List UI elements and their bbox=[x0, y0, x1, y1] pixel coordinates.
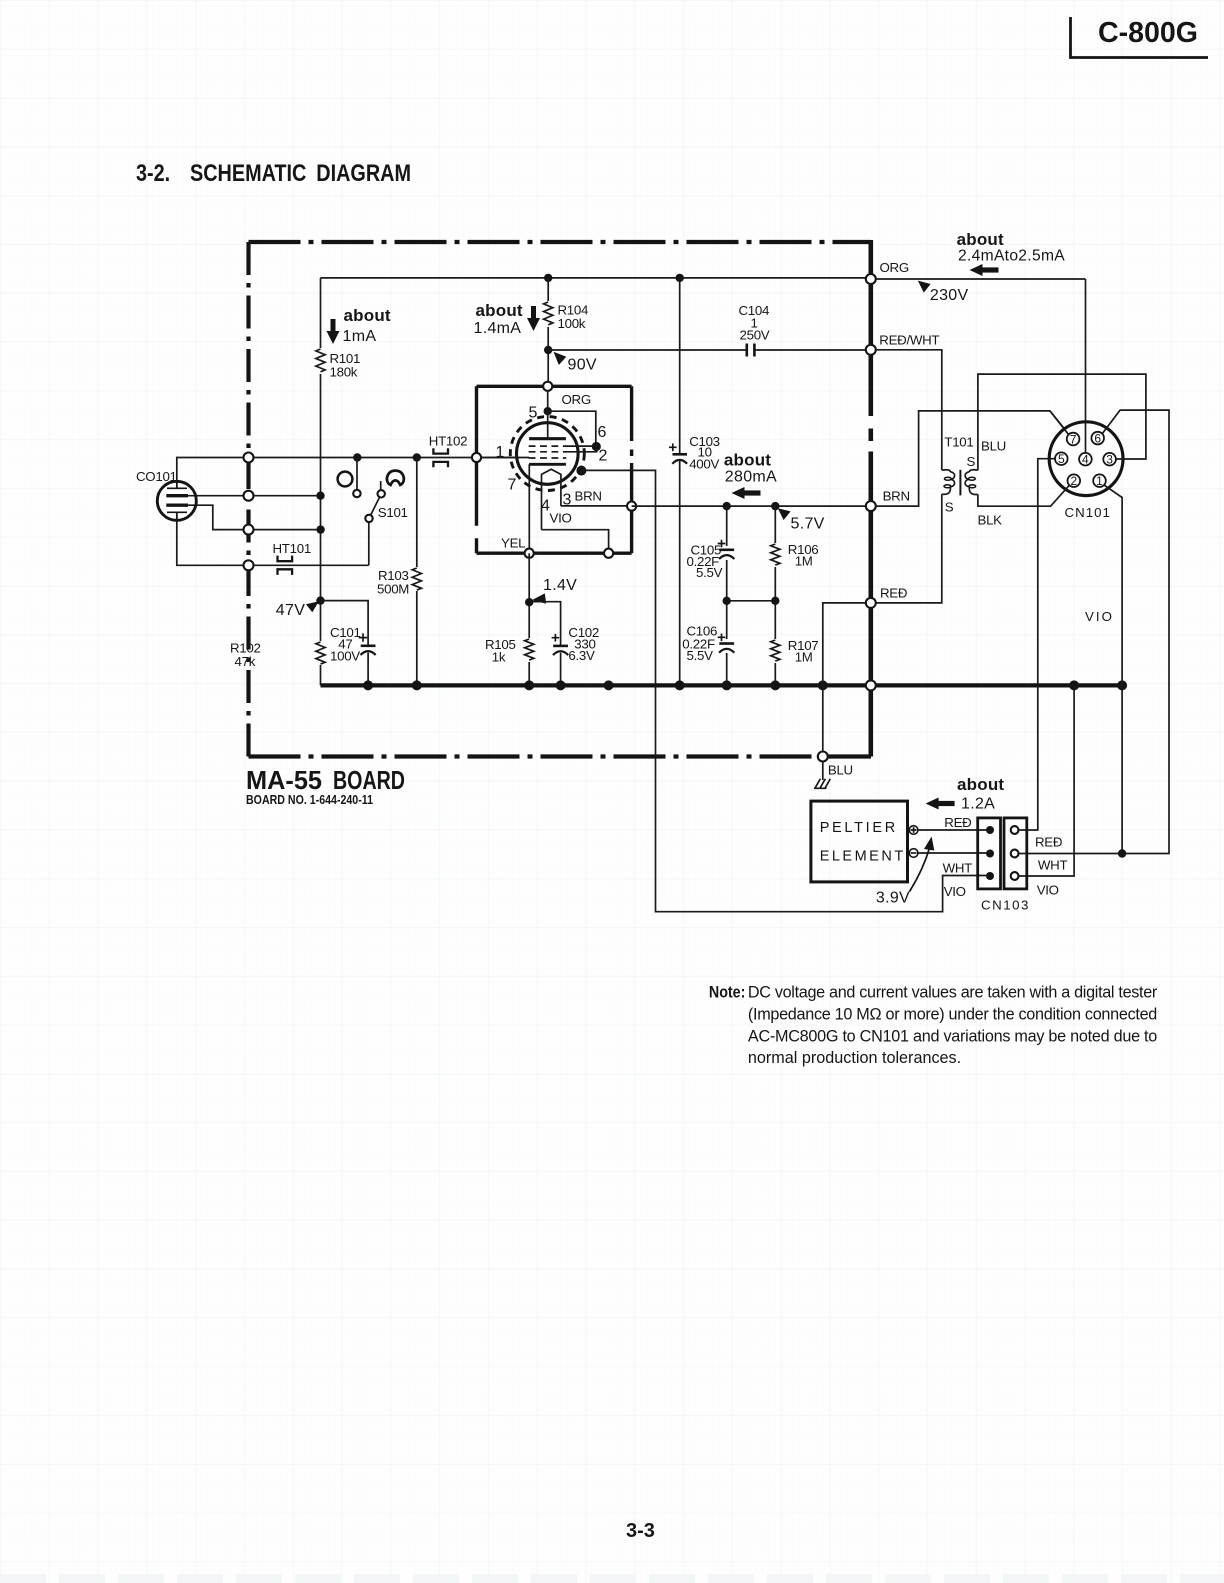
wire capsule bottom lead bbox=[177, 512, 369, 565]
chassis ground symbol bbox=[814, 779, 830, 789]
node ground rail junction bbox=[412, 680, 422, 690]
node ground rail junction bbox=[770, 680, 780, 690]
svg-text:2.4mAto2.5mA: 2.4mAto2.5mA bbox=[958, 248, 1065, 265]
capacitor C105 0.22F 5.5V bbox=[687, 540, 736, 580]
resistor R103 500M bbox=[377, 567, 423, 597]
svg-text:S101: S101 bbox=[378, 505, 408, 520]
svg-text:S: S bbox=[945, 500, 954, 515]
node WHT tie bbox=[1118, 849, 1126, 857]
wire RED to T101 primary bottom bbox=[871, 494, 942, 603]
connector CN101 shell bbox=[1049, 422, 1123, 496]
peltier element box bbox=[811, 801, 908, 882]
node top rail / R104 bbox=[544, 274, 552, 282]
tube heater bbox=[542, 469, 561, 530]
wire CN101 pin6 to WHT bbox=[1018, 410, 1169, 853]
wire cathode pin 7 bbox=[528, 464, 530, 553]
wire C103 branch bbox=[679, 278, 681, 686]
wire peltier plus RED bbox=[918, 829, 986, 831]
tube shield box bbox=[477, 386, 632, 553]
tube plate bbox=[529, 437, 566, 440]
wire ORG to CN101 pin4 bbox=[1085, 279, 1087, 453]
node pin 5 bbox=[544, 407, 552, 415]
capacitor C104 1 250V bbox=[739, 303, 770, 357]
svg-text:VIO: VIO bbox=[1085, 609, 1114, 624]
svg-text:ELEMENT: ELEMENT bbox=[820, 849, 906, 865]
thermal tie HT101 bbox=[273, 541, 311, 575]
wire capsule plate3 bbox=[188, 505, 321, 529]
node C105 top bbox=[723, 502, 731, 510]
board outline right border bbox=[868, 240, 873, 757]
node box left pin1 bbox=[472, 453, 481, 462]
svg-text:PELTIER: PELTIER bbox=[820, 820, 898, 836]
svg-text:1k: 1k bbox=[492, 650, 506, 665]
wire color labels near tube bbox=[501, 392, 602, 551]
wire pin 3 BRN bbox=[561, 505, 632, 507]
current arrow about 280mA bbox=[724, 451, 777, 500]
svg-text:WHT: WHT bbox=[943, 861, 973, 876]
node switch branch bbox=[353, 453, 361, 461]
node 47V bbox=[316, 596, 324, 604]
svg-text:280mA: 280mA bbox=[725, 469, 777, 486]
node box bottom YEL bbox=[525, 549, 534, 558]
node box top ORG bbox=[543, 382, 552, 391]
page header box C-800G bbox=[1071, 17, 1209, 58]
svg-text:C-800G: C-800G bbox=[1098, 17, 1198, 49]
svg-text:47V: 47V bbox=[276, 602, 305, 619]
node ground rail junction bbox=[675, 680, 685, 690]
svg-text:WHT: WHT bbox=[1038, 858, 1068, 873]
svg-text:3: 3 bbox=[1106, 453, 1113, 467]
node R106 top / 5.7V bbox=[771, 502, 779, 510]
wire plate riser / pin 5 bbox=[547, 386, 549, 438]
wire BLK to CN101 pin2 bbox=[978, 485, 1069, 506]
node ground rail junction bbox=[722, 680, 732, 690]
svg-text:1: 1 bbox=[1096, 474, 1103, 488]
resistor R101 180k bbox=[314, 348, 360, 380]
svg-text:S: S bbox=[967, 454, 976, 469]
node ground rail junction bbox=[524, 680, 534, 690]
svg-text:HT102: HT102 bbox=[429, 434, 467, 449]
svg-text:1M: 1M bbox=[795, 650, 813, 665]
svg-text:YEL: YEL bbox=[501, 536, 525, 551]
wire grid ext pin2 bbox=[565, 446, 598, 452]
wire main signal y=457.5 bbox=[249, 457, 530, 459]
svg-text:BLU: BLU bbox=[981, 439, 1006, 454]
svg-text:400V: 400V bbox=[689, 457, 719, 472]
svg-text:2: 2 bbox=[599, 448, 608, 465]
svg-text:(Impedance 10 MΩ or more) unde: (Impedance 10 MΩ or more) under the cond… bbox=[748, 1005, 1157, 1023]
node mid R106 bbox=[771, 597, 779, 605]
svg-text:1.4mA: 1.4mA bbox=[474, 320, 522, 337]
svg-text:6.3V: 6.3V bbox=[568, 648, 595, 663]
wire BRN bbox=[632, 505, 871, 507]
svg-text:BRN: BRN bbox=[883, 488, 910, 503]
voltage probe 5.7V bbox=[778, 508, 825, 532]
node ground rail junction bbox=[818, 680, 828, 690]
current arrow about 1mA bbox=[327, 306, 391, 345]
svg-text:BOARD: BOARD bbox=[333, 765, 405, 795]
thermal tie HT102 bbox=[429, 434, 467, 468]
svg-text:T101: T101 bbox=[944, 435, 973, 450]
tube grid bbox=[529, 446, 567, 458]
svg-text:CN101: CN101 bbox=[1065, 505, 1111, 520]
node mid C105 bbox=[723, 597, 731, 605]
svg-text:500M: 500M bbox=[377, 582, 409, 597]
node ground rail junction bbox=[363, 680, 373, 690]
wire R102 lower bbox=[320, 601, 322, 686]
wire CN101 pin1 to ground rail bbox=[1104, 485, 1122, 853]
switch S101 bbox=[338, 458, 408, 566]
svg-text:REĐ: REĐ bbox=[1035, 835, 1062, 850]
current arrow about 1.2A bbox=[926, 775, 1005, 813]
wire top supply rail bbox=[321, 277, 871, 279]
svg-text:7: 7 bbox=[1070, 432, 1077, 446]
node box bottom VIO bbox=[604, 549, 613, 558]
node ground rail junction bbox=[1069, 680, 1079, 690]
svg-text:VIO: VIO bbox=[550, 511, 572, 526]
resistor R105 1k bbox=[485, 637, 536, 665]
voltage probe 90V bbox=[554, 352, 597, 374]
wire BRN to CN101 pin7 bbox=[871, 411, 1069, 506]
svg-text:90V: 90V bbox=[568, 357, 597, 374]
wire pin 4 VIO bbox=[542, 530, 609, 553]
tube pin labels bbox=[496, 405, 608, 515]
svg-text:1.2A: 1.2A bbox=[961, 796, 995, 813]
svg-text:VIO: VIO bbox=[944, 884, 966, 899]
node right border RED/WHT bbox=[866, 345, 876, 355]
svg-text:DC voltage and current values: DC voltage and current values are taken … bbox=[748, 984, 1158, 1002]
wire ORG net bbox=[871, 278, 1086, 280]
svg-text:1: 1 bbox=[496, 444, 505, 461]
node R103 branch bbox=[413, 453, 421, 461]
voltage probe 1.4V bbox=[532, 577, 578, 604]
node left border main bbox=[244, 453, 254, 463]
svg-text:about: about bbox=[724, 451, 771, 470]
svg-text:3-2. SCHEMATIC DIAGRAM: 3-2. SCHEMATIC DIAGRAM bbox=[136, 160, 411, 187]
svg-text:about: about bbox=[957, 775, 1004, 794]
transformer T101 bbox=[942, 435, 978, 515]
svg-text:BRN: BRN bbox=[575, 489, 602, 504]
capacitor C106 0.22F 5.5V bbox=[682, 624, 735, 664]
wire capsule top lead bbox=[177, 458, 249, 489]
svg-text:3.9V: 3.9V bbox=[876, 890, 910, 907]
svg-text:2: 2 bbox=[1070, 474, 1077, 488]
node pin 2/6 bbox=[592, 442, 601, 451]
svg-text:Note:: Note: bbox=[709, 984, 746, 1002]
node right border RED bbox=[866, 598, 876, 608]
wire pin 1 into grid bbox=[477, 457, 530, 459]
capacitor C102 330 6.3V bbox=[552, 625, 599, 685]
svg-text:180k: 180k bbox=[330, 365, 358, 380]
board outline bottom border bbox=[249, 754, 823, 758]
svg-text:REĐ: REĐ bbox=[944, 815, 971, 830]
wire shield pin to peltier bbox=[581, 470, 986, 911]
node top rail / C103 bbox=[676, 274, 684, 282]
svg-text:47k: 47k bbox=[235, 654, 256, 669]
resistor R104 100k bbox=[542, 301, 588, 331]
wire YEL branch bbox=[528, 553, 530, 685]
wire RED/WHT net bbox=[871, 350, 942, 470]
svg-text:6: 6 bbox=[598, 424, 607, 441]
svg-text:REĐ/WHT: REĐ/WHT bbox=[879, 333, 939, 348]
node left border p3 bbox=[244, 525, 254, 535]
svg-text:1mA: 1mA bbox=[343, 328, 377, 345]
tube cathode bbox=[529, 463, 566, 466]
svg-text:250V: 250V bbox=[740, 328, 770, 343]
voltage probe 230V bbox=[918, 281, 969, 304]
svg-text:5: 5 bbox=[529, 405, 538, 422]
node capsule mid to R101 bbox=[316, 492, 324, 500]
svg-text:3: 3 bbox=[563, 492, 572, 509]
wire 1.4V to C102 bbox=[529, 602, 560, 646]
voltage probe 3.9V leader bbox=[876, 837, 934, 907]
wire mid tie bbox=[727, 600, 776, 602]
svg-text:about: about bbox=[344, 306, 391, 325]
svg-text:AC-MC800G to CN101 and variati: AC-MC800G to CN101 and variations may be… bbox=[748, 1027, 1157, 1045]
node ground rail junction bbox=[1117, 680, 1127, 690]
node 1.4V bbox=[525, 598, 533, 606]
peltier minus terminal bbox=[909, 849, 918, 858]
svg-text:about: about bbox=[957, 230, 1004, 249]
wire 47V to C101 bbox=[321, 601, 369, 646]
svg-text:1.4V: 1.4V bbox=[543, 577, 577, 594]
voltage probe 47V bbox=[276, 601, 319, 619]
wire R101 branch vertical bbox=[320, 278, 322, 601]
connector CN101 pins bbox=[1055, 431, 1116, 520]
peltier plus terminal bbox=[909, 826, 918, 835]
svg-text:5.5V: 5.5V bbox=[687, 648, 714, 663]
board outline MA-55 dash-dot border top bbox=[249, 240, 872, 244]
wire R106/R107 branch bbox=[774, 506, 776, 685]
node envelope shield pin bbox=[576, 466, 586, 476]
wire R104 branch bbox=[547, 278, 549, 386]
svg-text:4: 4 bbox=[1082, 453, 1089, 467]
svg-text:VIO: VIO bbox=[1037, 883, 1059, 898]
svg-text:1M: 1M bbox=[795, 554, 813, 569]
wire BLU to chassis ground bbox=[822, 759, 824, 780]
node ground rail junction bbox=[556, 680, 566, 690]
svg-text:3-3: 3-3 bbox=[626, 1520, 655, 1542]
svg-text:5.7V: 5.7V bbox=[791, 516, 825, 533]
node capsule plate3 to R101 bbox=[316, 525, 324, 533]
wire CN101 pin5 down to CN103 bbox=[1018, 459, 1055, 830]
capacitor C103 10/400V bbox=[669, 434, 720, 472]
svg-text:100k: 100k bbox=[558, 316, 586, 331]
vacuum tube V101 envelope bbox=[510, 417, 584, 491]
wire BRN diagonal to pin7 bbox=[1050, 411, 1068, 434]
svg-text:ORG: ORG bbox=[880, 260, 909, 275]
svg-text:BLK: BLK bbox=[978, 513, 1003, 528]
node left border bottom bbox=[244, 560, 254, 570]
node right border BRN bbox=[866, 501, 876, 511]
svg-text:5: 5 bbox=[1058, 452, 1065, 466]
wire R103 branch bbox=[416, 458, 418, 686]
wire pin5 to pin2/6 bbox=[548, 411, 596, 443]
svg-text:about: about bbox=[476, 301, 523, 320]
board outline left border bbox=[246, 242, 250, 757]
note text bbox=[709, 984, 1158, 1068]
svg-text:CN103: CN103 bbox=[981, 898, 1030, 913]
current arrow about 1.4mA bbox=[474, 301, 541, 337]
svg-text:230V: 230V bbox=[930, 287, 969, 304]
svg-text:BOARD NO. 1-644-240-11: BOARD NO. 1-644-240-11 bbox=[246, 793, 373, 807]
svg-text:5.5V: 5.5V bbox=[696, 565, 723, 580]
svg-text:BLU: BLU bbox=[828, 763, 853, 778]
svg-text:ORG: ORG bbox=[562, 392, 591, 407]
node ground rail junction bbox=[604, 680, 614, 690]
node 90V bbox=[544, 346, 552, 354]
wire 90V to RED/WHT bbox=[548, 349, 871, 351]
node left border mid bbox=[244, 491, 254, 501]
svg-text:7: 7 bbox=[508, 477, 517, 494]
resistor R106 1M bbox=[769, 542, 818, 569]
capacitor C101 47/100V bbox=[330, 625, 376, 685]
current arrow about 2.4mA to 2.5mA bbox=[957, 230, 1065, 276]
microphone capsule CO101 bbox=[136, 469, 196, 520]
svg-text:CO101: CO101 bbox=[136, 469, 177, 484]
wire VIO rail to CN103 bbox=[1018, 685, 1074, 876]
connector CN103 bbox=[978, 818, 1030, 913]
node box right BRN bbox=[627, 502, 636, 511]
svg-text:normal production tolerances.: normal production tolerances. bbox=[748, 1049, 961, 1067]
svg-text:REĐ: REĐ bbox=[880, 586, 907, 601]
wire peltier minus WHT bbox=[918, 852, 986, 854]
resistor R107 1M bbox=[769, 638, 818, 665]
wire capsule backplate mid bbox=[188, 495, 321, 497]
resistor R102 47k bbox=[230, 641, 327, 670]
wire BLU to CN101 pin3 bbox=[978, 374, 1146, 470]
wire C105/C106 branch bbox=[726, 506, 728, 685]
svg-text:HT101: HT101 bbox=[273, 541, 311, 556]
wire RED net inside bbox=[823, 603, 871, 757]
wire ground rail bbox=[321, 683, 1123, 687]
node right border rail bbox=[866, 680, 876, 690]
node bottom border BLU bbox=[818, 752, 828, 762]
node right border ORG bbox=[866, 274, 876, 284]
svg-text:100V: 100V bbox=[330, 649, 360, 664]
svg-text:MA-55: MA-55 bbox=[246, 765, 322, 795]
svg-text:6: 6 bbox=[1094, 431, 1101, 445]
